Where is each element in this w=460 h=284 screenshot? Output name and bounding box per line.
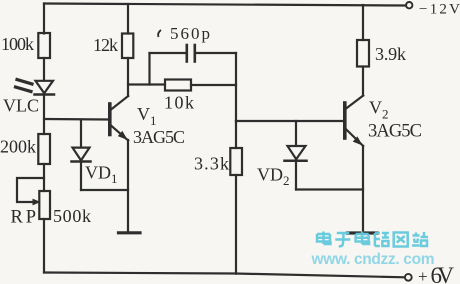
transistor V2 (345, 96, 363, 147)
resistor 12k (122, 34, 133, 59)
watermark glyph dian2 (356, 232, 370, 245)
svg-text:3.3k: 3.3k (194, 154, 229, 174)
svg-text:12k: 12k (93, 35, 118, 55)
wire top rail to 3.9k (362, 5, 364, 40)
wire node B to VD2 (295, 121, 297, 146)
ground bar V1 emitter (119, 231, 141, 234)
svg-text:10k: 10k (164, 93, 194, 113)
wire VD1 cathode down (80, 162, 82, 191)
svg-text:500k: 500k (53, 206, 91, 226)
wire top rail -12V (44, 4, 406, 6)
svg-text:www. cndzz. com: www. cndzz. com (311, 251, 435, 268)
wire VLC to 200k (node A junction at y119) (43, 95, 45, 135)
wire top rail to 12k (127, 4, 129, 34)
watermark glyph zhan (412, 232, 428, 246)
resistor 10k (165, 80, 191, 91)
watermark line 1: six CJK glyph shapes (317, 232, 428, 247)
wire node A to V1 base (44, 118, 108, 121)
wire node B to V2 base (236, 120, 344, 122)
wire up to 560p left (148, 53, 150, 85)
svg-text:+: + (418, 267, 428, 284)
wire bottom rail +6V (44, 273, 405, 278)
wire VD2 cathode down (295, 161, 297, 190)
wiper of RP (17, 178, 44, 205)
capacitor 560p (150, 45, 237, 62)
artifact mark before 560p (158, 30, 161, 37)
watermark glyph dian (317, 232, 331, 245)
diode VD1 (72, 148, 91, 162)
potentiometer RP 500k (39, 191, 50, 219)
svg-text:3AG5C: 3AG5C (368, 122, 422, 142)
wire node A to VD1 (80, 120, 82, 148)
svg-text:200k: 200k (0, 137, 36, 157)
wire V1 collector to 12k (127, 58, 129, 96)
terminal -12V (406, 2, 412, 8)
resistor 200k (38, 134, 50, 164)
terminal +6V (405, 274, 412, 281)
svg-text:3AG5C: 3AG5C (133, 127, 185, 147)
diode VD2 (285, 146, 307, 161)
wire left rail top to 100k (43, 4, 45, 34)
wire V1 emitter down (127, 140, 129, 232)
wire node B to 3.3k (235, 121, 237, 148)
resistor 3.3k (230, 148, 242, 175)
photodiode VLC (16, 80, 55, 95)
wire RP to bottom rail (43, 219, 45, 273)
watermark glyph zi (335, 233, 350, 246)
wire V1 collector node to 10k (128, 83, 165, 85)
wire 100k to VLC (43, 58, 45, 81)
resistor 100k (38, 33, 50, 58)
wire 200k to RP (43, 164, 45, 191)
resistor 3.9k (357, 40, 369, 67)
watermark glyph tu (394, 233, 408, 247)
wire VD1 to V1 emitter (81, 189, 128, 191)
svg-text:100k: 100k (1, 34, 34, 54)
svg-text:VLC: VLC (3, 96, 39, 116)
wire node B vertical (235, 53, 237, 122)
svg-text:−12V: −12V (419, 2, 460, 18)
wire VD2 to V2 emitter (296, 188, 363, 190)
watermark glyph lu (375, 233, 389, 246)
wire 3.3k to bottom rail (235, 175, 237, 274)
svg-text:3.9k: 3.9k (375, 44, 406, 64)
transistor V1 (110, 96, 128, 141)
wire V2 emitter down (362, 146, 364, 232)
wire V2 collector to 3.9k (362, 67, 364, 96)
ground bar V2 emitter (348, 231, 378, 234)
wire 10k right to node B (191, 84, 236, 86)
